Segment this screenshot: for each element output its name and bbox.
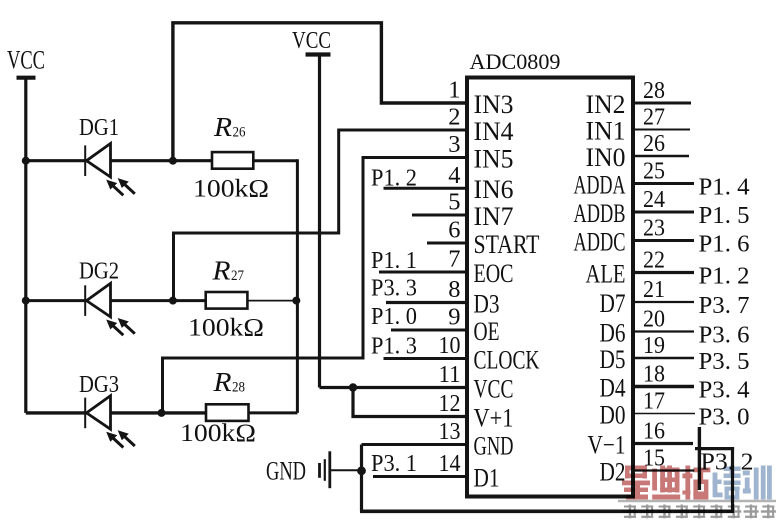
svg-text:VCC: VCC	[292, 28, 331, 54]
svg-text:26: 26	[233, 125, 246, 141]
svg-text:12: 12	[439, 390, 461, 417]
wire R26 right lead	[253, 159, 297, 162]
IC U1 ADC0809 body	[467, 78, 633, 497]
LED DG2	[79, 258, 135, 335]
wire stub pin 17 (right)	[633, 413, 695, 415]
svg-text:IN6: IN6	[474, 174, 514, 204]
svg-text:21: 21	[643, 276, 665, 303]
svg-text:D1: D1	[474, 462, 500, 492]
svg-text:R: R	[213, 112, 233, 142]
wire IN3 pin1 to DG1 junction (top route)	[173, 23, 467, 161]
wire stub pin 18 (right)	[633, 385, 694, 389]
wire stub pin6 START	[427, 242, 467, 245]
svg-text:R: R	[212, 367, 232, 397]
svg-text:2: 2	[448, 104, 460, 131]
wire GND vertical rail	[360, 445, 363, 512]
svg-text:D7: D7	[600, 288, 626, 318]
svg-text:5: 5	[448, 189, 460, 216]
wire R27 right lead	[247, 300, 297, 302]
svg-text:25: 25	[643, 157, 665, 184]
net label P1.0 (left) with pin wire	[371, 304, 467, 330]
svg-text:100kΩ: 100kΩ	[188, 315, 264, 342]
svg-text:D0: D0	[600, 399, 626, 429]
svg-text:IN7: IN7	[474, 201, 514, 231]
wire P3.2 box top	[695, 447, 734, 450]
wire stub pin 24 (right)	[633, 211, 694, 214]
svg-text:13: 13	[439, 418, 461, 445]
wire stub pin 23 (right)	[633, 239, 694, 242]
wire VCC (middle) stem down	[318, 55, 321, 388]
svg-text:GND: GND	[474, 430, 514, 460]
svg-text:14: 14	[439, 450, 461, 477]
junction node	[292, 297, 300, 305]
svg-text:D4: D4	[600, 372, 626, 402]
svg-text:D2: D2	[600, 456, 626, 486]
wire bottom rail	[360, 509, 734, 513]
wire stub pin 28 (right)	[633, 102, 691, 105]
wire stub pin 20 (right)	[633, 330, 694, 332]
junction node	[158, 409, 166, 417]
resistor R26	[193, 112, 269, 202]
junction node	[169, 157, 177, 165]
svg-text:17: 17	[643, 387, 665, 414]
svg-text:26: 26	[643, 130, 665, 157]
svg-text:GND: GND	[266, 457, 306, 486]
wire LED row DG1	[26, 159, 212, 162]
watermark small gray text	[623, 505, 638, 519]
svg-text:P3. 1: P3. 1	[371, 451, 417, 477]
junction node	[22, 157, 30, 165]
wire R28 right lead	[249, 411, 298, 414]
svg-text:ADDC: ADDC	[574, 226, 626, 256]
wire stub pin 22 (right)	[633, 271, 694, 274]
svg-text:EOC: EOC	[474, 258, 514, 288]
svg-text:24: 24	[643, 186, 665, 213]
svg-text:DG2: DG2	[79, 258, 119, 284]
net label P3.3 (left) with pin wire	[371, 275, 467, 302]
svg-text:P3. 4: P3. 4	[699, 378, 750, 404]
svg-text:1: 1	[448, 77, 460, 104]
wire IN5 pin3 to DG3 junction	[163, 158, 468, 413]
resistor R28	[180, 367, 256, 447]
svg-text:3: 3	[448, 131, 460, 158]
svg-text:START: START	[474, 229, 540, 259]
svg-text:100kΩ: 100kΩ	[180, 420, 256, 447]
wire VCC rail (left) down to DG3 row	[24, 78, 27, 413]
junction node pin11/pin12 branch	[349, 383, 357, 391]
svg-text:P1. 6: P1. 6	[699, 232, 750, 258]
net label P1.1 (left) with pin wire	[371, 248, 467, 274]
wire LED row DG3	[26, 411, 206, 414]
svg-text:11: 11	[439, 361, 461, 388]
svg-text:100kΩ: 100kΩ	[193, 176, 269, 203]
svg-text:IN1: IN1	[586, 115, 626, 145]
svg-text:ADDA: ADDA	[574, 169, 626, 199]
svg-text:22: 22	[643, 246, 665, 273]
svg-text:18: 18	[643, 360, 665, 387]
svg-text:16: 16	[643, 417, 665, 444]
junction node GND	[357, 466, 366, 475]
svg-text:P1. 1: P1. 1	[371, 248, 417, 274]
svg-text:IN2: IN2	[586, 89, 626, 119]
svg-text:DG3: DG3	[79, 372, 119, 398]
svg-text:6: 6	[448, 217, 460, 244]
net label P3.1 (left) with pin wire	[371, 451, 467, 477]
svg-text:28: 28	[643, 77, 665, 104]
svg-text:V+1: V+1	[474, 402, 514, 432]
svg-text:P1. 3: P1. 3	[371, 333, 417, 359]
svg-text:ADC0809: ADC0809	[470, 49, 561, 74]
svg-text:P1. 2: P1. 2	[699, 264, 750, 290]
svg-text:P3. 7: P3. 7	[699, 293, 750, 319]
svg-text:P1. 0: P1. 0	[371, 304, 417, 330]
svg-text:VCC: VCC	[474, 373, 514, 403]
svg-text:ADDB: ADDB	[574, 198, 626, 228]
svg-text:D5: D5	[600, 344, 626, 374]
wire stub below P3.0	[698, 427, 701, 490]
svg-text:IN3: IN3	[474, 89, 514, 119]
svg-text:P1. 5: P1. 5	[699, 203, 750, 229]
wire IN4 pin2 to DG2 junction	[174, 130, 468, 301]
svg-text:7: 7	[448, 246, 460, 273]
svg-text:27: 27	[231, 268, 244, 284]
svg-text:IN4: IN4	[474, 116, 514, 146]
svg-text:23: 23	[643, 214, 665, 241]
resistor R27	[188, 256, 264, 342]
svg-text:OE: OE	[474, 316, 500, 346]
svg-text:R: R	[211, 256, 231, 286]
svg-text:P1. 4: P1. 4	[699, 175, 750, 201]
svg-text:IN0: IN0	[586, 142, 626, 172]
svg-text:P3. 6: P3. 6	[699, 323, 750, 349]
svg-text:9: 9	[448, 304, 460, 331]
watermark separator line	[618, 500, 776, 503]
svg-text:D3: D3	[474, 288, 500, 318]
wire stub pin 16 (right)	[633, 442, 693, 445]
wire stub pin 25 (right)	[633, 182, 694, 185]
svg-text:20: 20	[643, 305, 665, 332]
wire stub pin 15 (right)	[633, 469, 694, 471]
svg-text:10: 10	[439, 332, 461, 359]
wire VCC to pin11	[320, 386, 468, 389]
svg-text:19: 19	[643, 332, 665, 359]
wire stub pin 19 (right)	[633, 357, 694, 359]
wire GND to rail	[331, 469, 362, 471]
net label P1.2 (left) with pin wire	[371, 165, 467, 191]
net label P1.3 (left) with pin wire	[371, 333, 467, 359]
svg-text:8: 8	[448, 276, 460, 303]
svg-text:V−1: V−1	[588, 429, 626, 459]
LED DG3	[79, 372, 135, 447]
svg-text:CLOCK: CLOCK	[474, 344, 540, 374]
svg-text:27: 27	[643, 103, 665, 130]
svg-text:P3. 5: P3. 5	[699, 349, 750, 375]
svg-text:P3. 3: P3. 3	[371, 275, 417, 301]
svg-text:D6: D6	[600, 317, 626, 347]
svg-text:ALE: ALE	[586, 258, 626, 288]
LED DG1	[79, 115, 135, 195]
wire stub pin 21 (right)	[633, 301, 694, 303]
power symbol VCC (middle)	[292, 28, 331, 55]
svg-text:DG1: DG1	[79, 115, 119, 141]
wire stub pin 27 (right)	[633, 129, 690, 131]
ground symbol GND	[266, 451, 330, 488]
junction node	[22, 297, 30, 305]
wire stub pin5 IN7	[412, 214, 467, 217]
svg-text:VCC: VCC	[7, 46, 45, 75]
wire branch to pin12	[353, 388, 467, 417]
svg-text:28: 28	[232, 380, 245, 396]
junction node	[169, 297, 177, 305]
wire P3.2 box right	[731, 447, 734, 513]
wire LED row DG2	[26, 299, 206, 302]
svg-text:4: 4	[448, 162, 460, 189]
wire resistor bus vertical	[296, 159, 299, 413]
wire stub pin 26 (right)	[633, 155, 689, 158]
svg-text:P3. 0: P3. 0	[699, 405, 750, 431]
svg-text:IN5: IN5	[474, 143, 514, 173]
power symbol VCC (left)	[7, 46, 45, 78]
wire pin13 GND	[362, 443, 468, 446]
watermark big characters	[622, 466, 650, 500]
